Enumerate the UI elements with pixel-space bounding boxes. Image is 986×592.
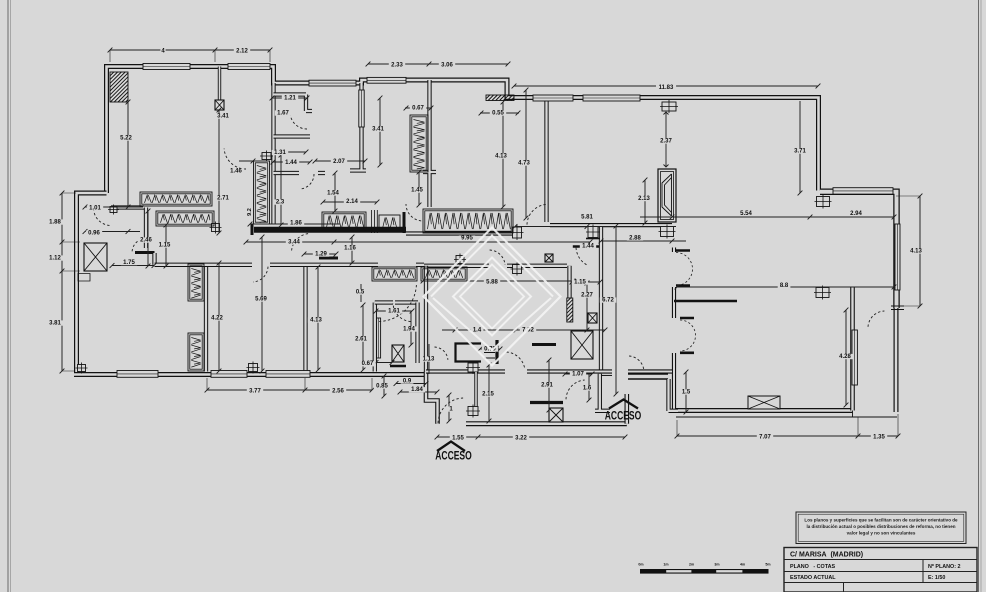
bedroom wall x430 — [423, 80, 436, 207]
svg-text:0.9: 0.9 — [403, 379, 412, 385]
dim text 1.13 — [420, 356, 436, 362]
hall door stub — [573, 245, 600, 248]
dim text 2.33 — [389, 62, 405, 68]
dim text 1.21 — [282, 95, 298, 101]
wardrobe partition — [372, 210, 378, 233]
svg-text:3.71: 3.71 — [794, 149, 806, 155]
svg-text:5.54: 5.54 — [740, 211, 752, 217]
shaft kitchen corner — [545, 254, 553, 262]
dim text 3.41 — [215, 113, 231, 119]
entry steps — [484, 347, 495, 358]
svg-text:9.2: 9.2 — [247, 208, 253, 216]
window top 3 — [309, 80, 356, 86]
dim 8.8 — [675, 285, 897, 290]
svg-text:1.75: 1.75 — [123, 260, 135, 266]
dim ext 7.07 — [677, 414, 898, 436]
window top-left 2 — [228, 64, 270, 70]
hall east wall stub — [674, 300, 737, 302]
wc wall bottom — [274, 171, 326, 175]
dim chain 5.81 — [513, 224, 676, 229]
svg-text:1.61: 1.61 — [388, 309, 400, 315]
dim ext top-left — [110, 50, 270, 62]
dim 1.15 kitchen — [570, 280, 603, 285]
svg-text:E: 1/50: E: 1/50 — [928, 575, 945, 581]
acceso text 2 — [605, 411, 642, 423]
svg-text:2.71: 2.71 — [217, 196, 229, 202]
door jamb stubs north — [676, 251, 690, 286]
svg-text:ESTADO ACTUAL: ESTADO ACTUAL — [790, 575, 836, 581]
dim text 1.15 — [156, 242, 172, 248]
exterior wall right upper — [820, 192, 897, 308]
small window bath2 — [377, 318, 381, 358]
door arc service — [629, 356, 644, 371]
dim text 2.46 — [138, 237, 154, 243]
hatched terrace corner — [110, 72, 128, 102]
svg-text:1.6: 1.6 — [583, 386, 592, 392]
dim 1.94 — [409, 311, 414, 347]
hall wall v — [144, 208, 148, 249]
kitchen bottom wall — [426, 369, 672, 373]
svg-text:7.07: 7.07 — [759, 435, 771, 441]
svg-text:6.72: 6.72 — [602, 298, 614, 304]
dim 2.14 — [321, 200, 380, 205]
dim 0.9 — [394, 381, 429, 386]
svg-text:5.69: 5.69 — [255, 297, 267, 303]
service room right wall — [669, 379, 679, 411]
top rooms bottom wall — [550, 223, 672, 227]
dim 1.35 — [858, 434, 900, 439]
door arc service 2 — [566, 380, 585, 399]
wall cap — [403, 212, 406, 233]
entry railing — [474, 372, 477, 406]
dim text 1.45 — [409, 187, 425, 193]
door arc bathroom — [290, 112, 307, 129]
dim 2.61 — [361, 303, 366, 373]
dim 1 — [447, 393, 452, 424]
acceso arrow 2 — [609, 400, 638, 409]
door arc laundry — [132, 239, 144, 252]
svg-text:0.85: 0.85 — [376, 384, 388, 390]
wardrobe bed4 b — [421, 267, 467, 281]
dim line 5.22 — [126, 100, 131, 210]
door arc kitchen — [490, 250, 505, 265]
dim text 1.44 — [283, 160, 299, 166]
shaft zone wall — [415, 303, 419, 364]
kitchen left wall — [424, 266, 428, 372]
radiator top mid — [410, 115, 428, 172]
wc wall top — [274, 134, 311, 138]
dim text 0.67 — [410, 105, 426, 111]
dim line left — [60, 191, 65, 374]
svg-text:4.28: 4.28 — [839, 354, 851, 360]
dim text 7.02 — [520, 327, 536, 333]
exterior wall right lower — [894, 308, 899, 412]
dim text 1.35 — [871, 434, 887, 440]
acceso text 1 — [435, 451, 472, 463]
dim 4.13 mid — [501, 100, 506, 210]
page border left — [8, 0, 11, 592]
svg-text:0.55: 0.55 — [492, 111, 504, 117]
dim text 0.79 — [482, 346, 498, 352]
laundry low wall — [135, 251, 155, 254]
title block text — [790, 552, 961, 582]
column top wing — [660, 100, 678, 113]
svg-text:1.35: 1.35 — [873, 435, 885, 441]
dim text 1.46 — [228, 168, 244, 174]
svg-text:1.21: 1.21 — [284, 96, 296, 102]
window top 4 — [367, 77, 406, 83]
dim text 1.4 — [471, 327, 484, 333]
dim text 1.55 — [450, 435, 466, 441]
dim text 0.67 — [359, 361, 375, 367]
dim text 2.12 — [234, 48, 250, 54]
svg-text:1.16: 1.16 — [344, 246, 356, 252]
shaft entry — [549, 408, 563, 422]
svg-text:2.91: 2.91 — [541, 383, 553, 389]
double door south — [680, 320, 696, 351]
dim 0.85 — [382, 374, 387, 399]
dim text 9.2 rotated — [247, 206, 253, 218]
dim 2.91 — [547, 358, 552, 413]
dim 2.37 line — [664, 112, 669, 167]
svg-text:2.94: 2.94 — [850, 211, 862, 217]
svg-text:3.44: 3.44 — [288, 240, 300, 246]
corridor top wall east — [406, 231, 520, 235]
dim 1.07 — [563, 372, 595, 377]
column at fireplace — [659, 225, 676, 239]
shaft stub wall — [218, 67, 221, 101]
svg-text:1.44: 1.44 — [582, 244, 594, 250]
dim text 3.41 — [370, 126, 386, 132]
svg-text:5.22: 5.22 — [120, 136, 132, 142]
svg-text:9.95: 9.95 — [461, 236, 473, 242]
dim 0.79 — [478, 347, 503, 352]
door arc bed4 large — [379, 285, 416, 322]
dim text 3.81 — [47, 320, 63, 326]
disclaimer text — [804, 518, 958, 536]
shaft small — [588, 313, 597, 323]
wardrobe big — [423, 209, 513, 233]
dim 4.22 — [217, 261, 222, 374]
dim text 3.77 — [247, 388, 263, 394]
svg-text:4.13: 4.13 — [910, 249, 922, 255]
dim 7.07 — [675, 434, 861, 439]
vent box bottom right — [748, 396, 780, 409]
dressing wall — [350, 83, 366, 171]
dim text 4.13 — [308, 317, 324, 323]
svg-text:4.73: 4.73 — [518, 161, 530, 167]
corridor top wall thick — [254, 227, 406, 233]
page border right — [979, 0, 982, 592]
svg-text:1.86: 1.86 — [290, 221, 302, 227]
dim 1.84 — [398, 390, 440, 395]
dim 1.44 wc — [271, 160, 313, 165]
window dressing — [359, 90, 364, 127]
svg-text:1.13: 1.13 — [423, 357, 435, 363]
dim text 1.16 — [342, 245, 358, 251]
dim text 5.22 — [118, 135, 134, 141]
svg-text:11.83: 11.83 — [659, 85, 674, 91]
svg-text:Nº PLANO: 2: Nº PLANO: 2 — [928, 564, 961, 570]
dim text 2.61 — [353, 336, 369, 342]
watermark diamond logo — [424, 228, 561, 366]
dim 5.88 — [421, 279, 576, 284]
column stair south — [466, 405, 480, 418]
svg-text:ACCESO: ACCESO — [605, 411, 642, 423]
dim 2.15 — [487, 363, 492, 424]
dim 1.54 — [333, 171, 338, 214]
dim 2.13 — [643, 178, 648, 226]
shaft vestibule — [392, 345, 404, 362]
door arc main entry — [438, 398, 463, 423]
svg-text:PLANO - COTAS: PLANO - COTAS — [790, 564, 836, 570]
scale bar labels — [638, 563, 770, 567]
column bottom left — [76, 363, 88, 374]
dim text 0.55 — [490, 110, 506, 116]
corridor low stub — [319, 257, 338, 260]
column stair north — [466, 361, 480, 374]
svg-text:1.12: 1.12 — [49, 256, 61, 262]
terrace glass door — [852, 330, 857, 385]
door arc dressing room — [406, 204, 421, 221]
dim 0.5 line — [360, 284, 362, 302]
dim 4.13 right — [918, 194, 923, 309]
svg-text:1.01: 1.01 — [89, 206, 101, 212]
svg-text:1.5: 1.5 — [682, 390, 691, 396]
door arc hall door — [576, 247, 587, 265]
dim text 7.07 — [757, 434, 773, 440]
dim text 4.22 — [209, 315, 225, 321]
window bottom 1 — [117, 371, 158, 378]
window bottom 3 — [266, 371, 310, 378]
door arc wc — [300, 174, 314, 189]
column kitchen 2 — [511, 263, 524, 276]
dim text 2.07 — [331, 159, 347, 165]
dim text 1 — [448, 406, 453, 412]
dim text 1.12 — [47, 255, 63, 261]
bathroom2 wall — [373, 303, 377, 372]
exterior wall left — [77, 193, 107, 374]
dim text 1.61 — [386, 308, 402, 314]
dim text 5.81 — [579, 214, 595, 220]
svg-text:1.94: 1.94 — [403, 327, 415, 333]
hatched duct column — [567, 298, 573, 322]
dim text 1.94 — [401, 326, 417, 332]
svg-text:1.54: 1.54 — [327, 191, 339, 197]
radiator corridor — [254, 161, 270, 224]
window right wing 1 — [533, 95, 573, 101]
dim chain 3.44/9.95 — [244, 240, 593, 245]
dim text 0.96 — [86, 230, 102, 236]
door arc bath2 — [393, 303, 411, 321]
wall cap2 — [251, 224, 254, 235]
vestibule inner wall — [530, 401, 563, 404]
window bottom 2 — [211, 371, 247, 378]
dim text 5.54 — [738, 211, 754, 217]
dim text 4.13 — [908, 248, 924, 254]
dim text 2.13 — [636, 196, 652, 202]
dim text 5.69 — [253, 296, 269, 302]
dim 1.29 — [302, 252, 339, 257]
dim 1.21 — [270, 96, 310, 101]
dim 3.71 — [798, 101, 803, 195]
svg-text:la distribución actual o posib: la distribución actual o posibles distri… — [806, 524, 955, 529]
laundry wall — [152, 253, 156, 265]
svg-text:4.22: 4.22 — [211, 316, 223, 322]
window right wing 2 — [583, 95, 640, 101]
dim text 2.3 — [274, 199, 287, 205]
svg-text:1.15: 1.15 — [159, 243, 171, 249]
dim 5.69 — [260, 235, 265, 374]
column living 2 — [814, 286, 831, 300]
svg-text:3.81: 3.81 — [49, 321, 61, 327]
svg-text:2.07: 2.07 — [333, 159, 345, 165]
top room left wall — [544, 98, 548, 223]
svg-text:1.4: 1.4 — [473, 328, 482, 334]
fireplace — [658, 169, 676, 222]
column hall — [108, 205, 119, 215]
window right wall — [895, 224, 900, 290]
svg-text:0.96: 0.96 — [88, 231, 100, 237]
svg-text:8.8: 8.8 — [780, 283, 789, 289]
column living 1 — [815, 195, 832, 209]
dim text 3.71 — [792, 148, 808, 154]
dim text 2.88 — [627, 235, 643, 241]
title block — [784, 548, 977, 592]
dim text 1.54 — [325, 190, 341, 196]
dim 0.67 small — [374, 360, 395, 365]
svg-text:1.45: 1.45 — [411, 188, 423, 194]
dim text 1.67 — [275, 110, 291, 116]
door arc bed3 — [253, 267, 268, 282]
acceso arrow 1 — [437, 442, 465, 452]
svg-text:C/ MARISA (MADRID): C/ MARISA (MADRID) — [790, 552, 863, 559]
svg-text:2.33: 2.33 — [391, 63, 403, 69]
dim text 1.01 — [87, 205, 103, 211]
svg-text:5.88: 5.88 — [486, 280, 498, 286]
svg-text:0.67: 0.67 — [362, 361, 374, 367]
dim 1.01 — [83, 205, 143, 210]
svg-text:1.44: 1.44 — [285, 160, 297, 166]
shaft center big — [571, 331, 593, 359]
wardrobe mid 1 — [322, 212, 366, 231]
hall left wall — [599, 227, 603, 372]
svg-text:3.41: 3.41 — [372, 127, 384, 133]
svg-text:1.15: 1.15 — [574, 280, 586, 286]
dim text 1.29 — [313, 251, 329, 257]
entry stair enclosure — [456, 344, 482, 362]
svg-text:1.84: 1.84 — [411, 387, 423, 393]
wardrobe bed3 a — [188, 264, 204, 301]
wardrobe bed4 a — [372, 267, 417, 281]
window top-left 1 — [143, 64, 190, 70]
column corridor — [454, 254, 466, 266]
dim text 1.44 — [580, 243, 596, 249]
svg-text:2.13: 2.13 — [638, 196, 650, 202]
living room bottom wall — [676, 408, 853, 413]
svg-text:1.88: 1.88 — [49, 220, 61, 226]
dim line 11.83 — [512, 84, 821, 89]
dim text 2.56 — [330, 388, 346, 394]
svg-text:2.56: 2.56 — [332, 389, 344, 395]
dim text 2.27 — [579, 292, 595, 298]
dim 0.55 — [479, 111, 521, 116]
dim ext bottom — [207, 378, 372, 390]
door arc terrace — [868, 311, 884, 327]
dim 1.16 — [350, 235, 355, 266]
shaft left — [84, 243, 107, 271]
shaft top — [215, 100, 224, 110]
dim text 4.13 — [493, 153, 509, 159]
bedroom3 left wall — [204, 264, 208, 372]
service room walls — [595, 374, 610, 411]
dim 3.41 mid — [378, 96, 383, 168]
dim text 3.22 — [513, 435, 529, 441]
dim 2.3 — [279, 153, 284, 228]
svg-text:1.67: 1.67 — [277, 111, 289, 117]
svg-text:2.12: 2.12 — [236, 49, 248, 55]
dim 6.72 — [614, 224, 619, 397]
bedroom partition wall — [271, 83, 275, 224]
window right wing band — [833, 188, 893, 194]
dim text 4 — [160, 48, 165, 54]
dim 0.67 radiator — [404, 106, 434, 111]
svg-text:ACCESO: ACCESO — [435, 451, 472, 463]
svg-text:valor legal y no son vinculant: valor legal y no son vinculantes — [847, 531, 916, 536]
disclaimer note box — [796, 512, 966, 544]
dim 4.13 bed4 — [316, 265, 321, 373]
dim 1.46 — [239, 159, 255, 164]
corridor bottom wall e — [628, 373, 668, 380]
dim text 6.72 — [600, 297, 616, 303]
kitchen top wall — [424, 264, 567, 268]
column kitchen 1 — [511, 225, 524, 240]
hall top wall — [111, 205, 144, 209]
svg-text:5.81: 5.81 — [581, 215, 593, 221]
dim 1.45 — [417, 170, 422, 208]
dim text 1.86 — [288, 220, 304, 226]
dim text 2.71 — [215, 195, 231, 201]
svg-text:1.46: 1.46 — [230, 169, 242, 175]
dim 3.77/2.56 — [205, 388, 375, 393]
dim 1.6 — [587, 374, 592, 402]
dim 1.61 — [374, 309, 415, 314]
svg-text:2.15: 2.15 — [482, 392, 494, 398]
dim text 11.83 — [656, 85, 676, 91]
svg-text:2.3: 2.3 — [276, 200, 285, 206]
dim ext right — [896, 196, 920, 306]
dim text 4.73 — [516, 160, 532, 166]
hatched wall strip top — [486, 95, 514, 101]
dim chain 3.41/2.71 — [217, 108, 222, 236]
wardrobe master 2 — [156, 211, 214, 226]
corridor bottom wall w — [599, 372, 612, 376]
svg-text:5m: 5m — [765, 563, 770, 567]
dim text 0.5 — [354, 289, 367, 295]
svg-text:4m: 4m — [740, 563, 745, 567]
bathroom2 top wall — [375, 300, 418, 304]
svg-text:4.13: 4.13 — [310, 318, 322, 324]
terrace wall — [850, 288, 855, 411]
vestibule right wall — [624, 394, 629, 424]
svg-text:1.31: 1.31 — [274, 150, 286, 156]
svg-text:2.88: 2.88 — [629, 236, 641, 242]
svg-text:2.14: 2.14 — [346, 199, 358, 205]
dim text 1.84 — [409, 387, 425, 393]
dim text 1.75 — [121, 260, 137, 266]
dim text 1.07 — [570, 371, 586, 377]
ledge box — [78, 274, 90, 282]
